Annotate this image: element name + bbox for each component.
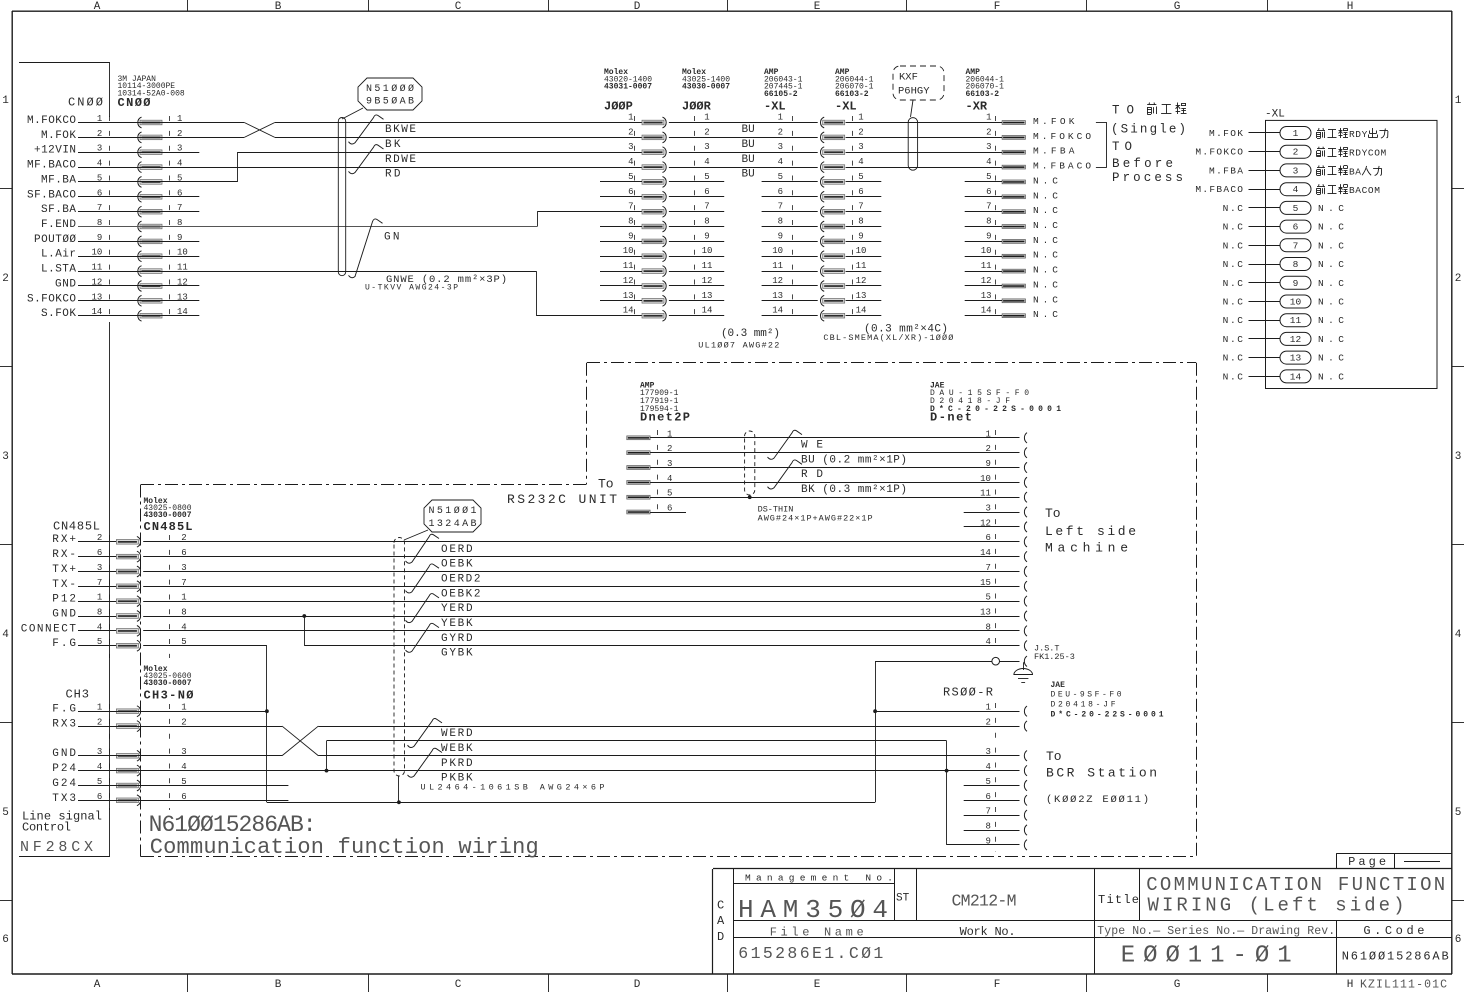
svg-text:MF.BACO: MF.BACO (27, 160, 76, 172)
svg-text:2: 2 (704, 127, 709, 137)
svg-text:3: 3 (2, 451, 9, 463)
svg-text:MF.BA: MF.BA (41, 174, 76, 186)
svg-text:TX+: TX+ (52, 564, 76, 576)
svg-text:OERD2: OERD2 (441, 574, 481, 586)
svg-text:O: O (1374, 148, 1380, 159)
svg-text:TX3: TX3 (52, 793, 76, 805)
svg-text:1: 1 (1293, 128, 1299, 139)
svg-text:8: 8 (858, 217, 863, 227)
svg-text:11: 11 (772, 261, 783, 271)
svg-text:12: 12 (856, 276, 867, 286)
svg-text:S.FOKCO: S.FOKCO (27, 293, 76, 305)
svg-text:N.C: N.C (1223, 315, 1244, 326)
svg-text:8: 8 (778, 217, 783, 227)
svg-text:11: 11 (856, 261, 867, 271)
svg-text:1: 1 (628, 113, 633, 123)
svg-text:4: 4 (778, 157, 783, 167)
svg-text:M.FBA: M.FBA (1209, 165, 1243, 176)
svg-text:B: B (275, 1, 282, 13)
svg-text:4: 4 (704, 157, 709, 167)
svg-text:D: D (634, 979, 641, 991)
svg-text:66103-2: 66103-2 (966, 90, 1000, 99)
svg-text:12: 12 (1290, 334, 1302, 345)
svg-text:To: To (598, 477, 614, 492)
svg-text:N.C: N.C (1318, 297, 1344, 308)
svg-text:D: D (717, 930, 724, 944)
svg-text:C: C (717, 899, 724, 913)
svg-text:TX-: TX- (52, 579, 76, 591)
svg-text:N.C: N.C (1318, 334, 1344, 345)
svg-text:Control: Control (22, 821, 71, 835)
svg-text:2: 2 (986, 127, 991, 137)
svg-text:14: 14 (856, 306, 867, 316)
svg-text:BCR Station: BCR Station (1046, 766, 1157, 781)
svg-text:6: 6 (986, 187, 991, 197)
svg-text:11: 11 (702, 261, 713, 271)
svg-text:1: 1 (986, 113, 991, 123)
svg-text:YERD: YERD (441, 603, 473, 615)
svg-text:9: 9 (1293, 278, 1299, 289)
svg-text:13: 13 (1290, 353, 1302, 364)
svg-text:13: 13 (623, 291, 634, 301)
svg-text:OERD: OERD (441, 544, 473, 556)
svg-text:2: 2 (778, 127, 783, 137)
svg-text:1: 1 (985, 429, 990, 439)
svg-text:N.C: N.C (1318, 240, 1344, 251)
svg-text:12: 12 (772, 276, 783, 286)
svg-text:B: B (1349, 166, 1355, 177)
svg-text:3: 3 (628, 142, 633, 152)
svg-text:4: 4 (986, 157, 991, 167)
svg-text:JAE: JAE (1051, 681, 1066, 690)
svg-text:13: 13 (772, 291, 783, 301)
svg-text:12: 12 (702, 276, 713, 286)
svg-text:GYRD: GYRD (441, 633, 473, 645)
svg-text:1: 1 (778, 113, 783, 123)
svg-text:-XL: -XL (764, 100, 786, 114)
svg-text:M.FOK: M.FOK (1209, 128, 1243, 139)
svg-text:5: 5 (1455, 807, 1462, 819)
svg-text:F.G: F.G (52, 638, 76, 650)
svg-text:F: F (994, 1, 1001, 13)
svg-text:BU: BU (742, 154, 755, 166)
svg-text:+12VIN: +12VIN (34, 145, 76, 157)
svg-text:43030-0007: 43030-0007 (144, 679, 192, 688)
svg-text:A: A (1355, 166, 1361, 177)
svg-text:10: 10 (981, 246, 992, 256)
svg-text:6: 6 (667, 504, 672, 514)
svg-text:BU (0.2 mm²×1P): BU (0.2 mm²×1P) (801, 454, 907, 466)
svg-text:C: C (455, 979, 462, 991)
svg-text:5: 5 (704, 172, 709, 182)
svg-text:E: E (814, 979, 821, 991)
svg-text:7: 7 (858, 202, 863, 212)
svg-text:CNØØ: CNØØ (118, 96, 151, 110)
svg-text:File Name: File Name (770, 926, 864, 940)
svg-text:M: M (1381, 148, 1387, 159)
svg-text:9: 9 (704, 231, 709, 241)
svg-text:N61ØØ15286AB: N61ØØ15286AB (1342, 949, 1449, 963)
svg-text:N.C: N.C (1033, 250, 1058, 261)
svg-text:5: 5 (628, 172, 633, 182)
svg-text:G: G (1174, 979, 1181, 991)
svg-text:7: 7 (1293, 240, 1299, 251)
svg-text:D: D (1355, 129, 1361, 140)
svg-text:43031-0007: 43031-0007 (604, 83, 652, 92)
svg-text:5: 5 (858, 172, 863, 182)
svg-text:A: A (717, 914, 725, 928)
svg-text:O: O (1368, 185, 1374, 196)
svg-text:3: 3 (1293, 165, 1299, 176)
svg-text:9: 9 (985, 459, 990, 469)
svg-text:L.STA: L.STA (41, 264, 76, 276)
svg-text:YEBK: YEBK (441, 618, 473, 630)
svg-text:N.C: N.C (1033, 309, 1058, 320)
svg-text:FK1.25-3: FK1.25-3 (1034, 652, 1075, 662)
svg-text:12: 12 (91, 278, 102, 288)
svg-text:13: 13 (981, 291, 992, 301)
svg-text:D*C-20-22S-0001: D*C-20-22S-0001 (1051, 711, 1164, 720)
svg-text:13: 13 (856, 291, 867, 301)
svg-text:8: 8 (986, 217, 991, 227)
svg-text:N.C: N.C (1223, 222, 1244, 233)
svg-text:13: 13 (702, 291, 713, 301)
svg-text:5: 5 (1293, 203, 1299, 214)
svg-text:N.C: N.C (1223, 259, 1244, 270)
svg-text:N.C: N.C (1033, 280, 1058, 291)
svg-text:H: H (1347, 1, 1354, 13)
svg-text:4: 4 (2, 629, 9, 641)
svg-text:RX-: RX- (52, 549, 76, 561)
svg-text:7: 7 (986, 202, 991, 212)
svg-text:N.C: N.C (1318, 278, 1344, 289)
svg-text:9: 9 (778, 231, 783, 241)
svg-text:N.C: N.C (1318, 203, 1344, 214)
svg-text:BK: BK (385, 139, 401, 151)
svg-text:N.C: N.C (1223, 203, 1244, 214)
svg-text:N.C: N.C (1318, 315, 1344, 326)
svg-text:D: D (634, 1, 641, 13)
svg-text:Y: Y (1362, 148, 1368, 159)
svg-text:P24: P24 (52, 763, 76, 775)
svg-text:2: 2 (858, 127, 863, 137)
svg-text:14: 14 (981, 306, 992, 316)
svg-text:PKRD: PKRD (441, 758, 473, 770)
svg-text:N.C: N.C (1033, 265, 1058, 276)
svg-text:R: R (1349, 129, 1355, 140)
svg-text:43030-0007: 43030-0007 (682, 83, 730, 92)
svg-text:S.FOK: S.FOK (41, 308, 76, 320)
svg-text:BU: BU (742, 139, 755, 151)
svg-text:JØØP: JØØP (604, 100, 633, 114)
svg-text:9: 9 (985, 836, 990, 846)
svg-text:8: 8 (985, 822, 990, 832)
svg-text:BU: BU (742, 169, 755, 181)
svg-text:3: 3 (985, 504, 990, 514)
svg-text:2: 2 (628, 127, 633, 137)
svg-text:BKWE: BKWE (385, 124, 416, 136)
svg-text:CN485L: CN485L (53, 520, 100, 534)
svg-text:A: A (1355, 185, 1361, 196)
svg-text:-XL: -XL (1265, 109, 1285, 121)
svg-text:N.C: N.C (1223, 278, 1244, 289)
svg-text:3: 3 (858, 142, 863, 152)
svg-text:P6HGY: P6HGY (898, 86, 930, 98)
svg-text:4: 4 (858, 157, 863, 167)
svg-text:13: 13 (980, 608, 991, 618)
svg-text:ST: ST (896, 893, 910, 905)
svg-text:9: 9 (628, 231, 633, 241)
svg-text:CM212-M: CM212-M (952, 892, 1017, 911)
svg-text:SF.BACO: SF.BACO (27, 189, 76, 201)
svg-text:GND: GND (55, 279, 76, 291)
svg-text:5: 5 (778, 172, 783, 182)
svg-text:-XL: -XL (835, 100, 857, 114)
svg-text:H: H (1347, 979, 1354, 991)
svg-text:2: 2 (985, 444, 990, 454)
svg-text:7: 7 (778, 202, 783, 212)
svg-text:3: 3 (778, 142, 783, 152)
svg-text:6: 6 (628, 187, 633, 197)
svg-text:1: 1 (704, 113, 709, 123)
svg-text:9: 9 (858, 231, 863, 241)
svg-text:2: 2 (985, 718, 990, 728)
svg-text:14: 14 (623, 306, 634, 316)
svg-text:1: 1 (985, 703, 990, 713)
svg-text:N.C: N.C (1033, 205, 1058, 216)
svg-text:B: B (275, 979, 282, 991)
svg-text:Title: Title (1098, 893, 1139, 907)
svg-text:N.C: N.C (1033, 190, 1058, 201)
svg-text:N.C: N.C (1223, 334, 1244, 345)
svg-text:(0.3 mm²): (0.3 mm²) (721, 328, 780, 340)
svg-text:UL1ØØ7 AWG#22: UL1ØØ7 AWG#22 (698, 341, 779, 351)
svg-text:N.C: N.C (1318, 259, 1344, 270)
svg-text:D: D (1355, 148, 1361, 159)
svg-text:RDWE: RDWE (385, 154, 416, 166)
svg-text:6: 6 (1293, 222, 1299, 233)
svg-text:G24: G24 (52, 778, 76, 790)
svg-text:11: 11 (623, 261, 634, 271)
svg-text:AWG#24×1P+AWG#22×1P: AWG#24×1P+AWG#22×1P (758, 514, 873, 524)
svg-text:8: 8 (1293, 259, 1299, 270)
svg-text:To: To (1045, 506, 1061, 521)
svg-text:HAM35Ø4: HAM35Ø4 (738, 895, 888, 925)
svg-text:RX3: RX3 (52, 719, 76, 731)
svg-text:RX+: RX+ (52, 534, 76, 546)
svg-text:2: 2 (1455, 273, 1462, 285)
svg-text:Work No.: Work No. (960, 925, 1016, 939)
svg-text:14: 14 (772, 306, 783, 316)
svg-text:M.FOK: M.FOK (41, 130, 76, 142)
svg-text:5: 5 (986, 172, 991, 182)
svg-text:3: 3 (1455, 451, 1462, 463)
svg-text:M: M (1374, 185, 1380, 196)
svg-text:A: A (94, 1, 101, 13)
svg-text:N.C: N.C (1033, 175, 1058, 186)
svg-text:GND: GND (52, 609, 76, 621)
svg-text:WEBK: WEBK (441, 743, 473, 755)
svg-text:4: 4 (1293, 184, 1299, 195)
svg-text:M.FOKCO: M.FOKCO (27, 115, 76, 127)
svg-text:2: 2 (1293, 147, 1299, 158)
svg-text:Left side: Left side (1045, 524, 1136, 539)
svg-text:GYBK: GYBK (441, 648, 473, 660)
svg-text:10: 10 (856, 246, 867, 256)
svg-text:POUTØØ: POUTØØ (34, 234, 76, 246)
svg-text:N.C: N.C (1318, 222, 1344, 233)
svg-text:8: 8 (97, 608, 102, 618)
svg-text:RD: RD (385, 169, 401, 181)
svg-text:N.C: N.C (1318, 353, 1344, 364)
svg-text:4: 4 (628, 157, 633, 167)
svg-text:N.C: N.C (1223, 240, 1244, 251)
svg-text:Communication function wiring: Communication function wiring (150, 835, 539, 860)
svg-text:N.C: N.C (1223, 297, 1244, 308)
svg-text:N.C: N.C (1318, 371, 1344, 382)
svg-text:3: 3 (986, 142, 991, 152)
svg-text:66103-2: 66103-2 (835, 90, 869, 99)
svg-text:BK (0.3 mm²×1P): BK (0.3 mm²×1P) (801, 484, 907, 496)
svg-text:N.C: N.C (1033, 294, 1058, 305)
svg-text:6: 6 (858, 187, 863, 197)
svg-text:10: 10 (772, 246, 783, 256)
svg-text:B: B (1349, 185, 1355, 196)
svg-text:8: 8 (628, 217, 633, 227)
svg-text:CBL-SMEMA(XL/XR)-1ØØØ: CBL-SMEMA(XL/XR)-1ØØØ (823, 333, 953, 343)
svg-text:A: A (94, 979, 101, 991)
svg-text:1: 1 (1455, 95, 1462, 107)
svg-text:C: C (1362, 185, 1368, 196)
svg-text:6: 6 (2, 934, 9, 946)
svg-text:12: 12 (623, 276, 634, 286)
svg-text:10: 10 (980, 474, 991, 484)
svg-text:6: 6 (778, 187, 783, 197)
svg-text:RS232C UNIT: RS232C UNIT (507, 492, 617, 507)
svg-text:F.G: F.G (52, 704, 76, 716)
svg-text:11: 11 (1290, 315, 1302, 326)
svg-text:WERD: WERD (441, 728, 473, 740)
svg-text:N.C: N.C (1223, 371, 1244, 382)
svg-text:11: 11 (981, 261, 992, 271)
svg-text:P12: P12 (52, 594, 76, 606)
svg-text:8: 8 (181, 608, 186, 618)
svg-text:C: C (1368, 148, 1374, 159)
svg-text:3: 3 (704, 142, 709, 152)
svg-text:6: 6 (1455, 934, 1462, 946)
svg-text:OEBK2: OEBK2 (441, 588, 481, 600)
svg-text:SF.BA: SF.BA (41, 204, 76, 216)
svg-text:To: To (1046, 749, 1062, 764)
svg-text:1: 1 (858, 113, 863, 123)
svg-text:D-net: D-net (930, 411, 972, 425)
svg-text:10: 10 (623, 246, 634, 256)
svg-text:66105-2: 66105-2 (764, 90, 798, 99)
svg-text:L.Air: L.Air (41, 249, 76, 261)
svg-text:43030-0007: 43030-0007 (144, 511, 192, 520)
svg-text:KXF: KXF (899, 72, 918, 84)
svg-text:F: F (994, 979, 1001, 991)
svg-text:4: 4 (985, 762, 990, 772)
svg-text:-XR: -XR (966, 100, 988, 114)
svg-text:7: 7 (628, 202, 633, 212)
svg-text:D20418-JF: D20418-JF (1051, 701, 1116, 710)
svg-text:7: 7 (704, 202, 709, 212)
svg-text:1: 1 (2, 95, 9, 107)
svg-text:JØØR: JØØR (682, 100, 712, 114)
svg-text:N.C: N.C (1033, 235, 1058, 246)
svg-text:10: 10 (1290, 297, 1302, 308)
svg-text:GND: GND (52, 748, 76, 760)
svg-text:N.C: N.C (1033, 220, 1058, 231)
svg-text:G: G (1174, 1, 1181, 13)
svg-text:14: 14 (702, 306, 713, 316)
svg-text:12: 12 (177, 278, 188, 288)
svg-text:6: 6 (704, 187, 709, 197)
svg-text:U-TKVV AWG24-3P: U-TKVV AWG24-3P (365, 284, 458, 293)
svg-text:KZIL111-01C: KZIL111-01C (1360, 979, 1447, 992)
svg-text:14: 14 (1290, 371, 1302, 382)
svg-text:CH3: CH3 (66, 688, 90, 702)
svg-text:F.END: F.END (41, 219, 76, 231)
svg-text:C: C (455, 1, 462, 13)
svg-text:2: 2 (2, 273, 9, 285)
svg-text:5: 5 (2, 807, 9, 819)
svg-text:12: 12 (981, 276, 992, 286)
svg-text:8: 8 (704, 217, 709, 227)
svg-text:10: 10 (702, 246, 713, 256)
svg-text:3: 3 (985, 747, 990, 757)
svg-text:4: 4 (1455, 629, 1462, 641)
svg-text:11: 11 (980, 489, 991, 499)
svg-text:BU: BU (742, 124, 755, 136)
svg-text:9: 9 (986, 231, 991, 241)
svg-text:Process: Process (1112, 171, 1183, 185)
svg-text:Y: Y (1362, 129, 1368, 140)
svg-text:OEBK: OEBK (441, 559, 473, 571)
svg-text:E: E (814, 1, 821, 13)
svg-text:Type No.— Series No.— Drawing: Type No.— Series No.— Drawing Rev. (1097, 925, 1335, 938)
svg-text:N.C: N.C (1223, 353, 1244, 364)
svg-text:R: R (1349, 148, 1355, 159)
